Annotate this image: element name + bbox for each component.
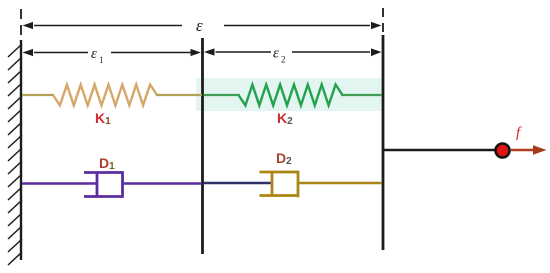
svg-text:ε: ε <box>196 16 203 35</box>
wire: right bar to force node <box>384 149 496 151</box>
wire: spring K2 to right bar <box>341 94 382 96</box>
dimension line for strain e1 <box>23 49 202 56</box>
spring K2 <box>239 85 343 106</box>
right bar <box>382 35 385 250</box>
wire: damper D1 to middle bar <box>123 182 203 184</box>
wire: middle bar to damper D2 piston <box>204 182 273 184</box>
force arrow f <box>511 145 547 155</box>
svg-text:ε: ε <box>91 46 97 62</box>
force node (red circle) <box>496 144 510 158</box>
svg-text:1: 1 <box>99 55 104 65</box>
halo behind spring K2 <box>196 78 382 111</box>
damper D2 <box>260 171 299 198</box>
right bar dashed top <box>382 8 384 35</box>
damper D1 <box>84 171 123 198</box>
left dashed reference line <box>20 9 22 40</box>
wire: damper D2 to right bar <box>298 182 382 184</box>
wall line <box>20 40 22 260</box>
spring K1 <box>53 85 157 106</box>
dimension line for strain e (total) <box>23 22 382 29</box>
dimension line for strain e2 <box>204 48 382 56</box>
middle bar <box>201 38 204 254</box>
wire: wall to spring K1 <box>22 94 54 96</box>
svg-text:2: 2 <box>281 55 286 65</box>
wire: spring K1 to middle bar <box>156 94 202 96</box>
wire: middle bar to spring K2 <box>204 94 241 96</box>
wire: wall to damper D1 piston <box>22 182 97 184</box>
svg-text:ε: ε <box>273 46 279 62</box>
wall hatching <box>8 44 22 265</box>
